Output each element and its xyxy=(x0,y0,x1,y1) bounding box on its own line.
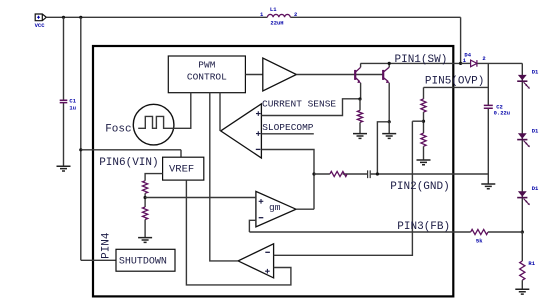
svg-text:PIN3(FB): PIN3(FB) xyxy=(397,221,450,233)
wire OVP tap to comparator xyxy=(412,120,423,122)
ground Q2 emitter xyxy=(382,134,396,139)
wire VIN/shutdown branch xyxy=(80,17,82,260)
wire LED to R1 xyxy=(521,232,523,261)
LED D1 middle xyxy=(517,133,530,147)
node SW-D4 junction xyxy=(459,62,462,65)
wire CURRENT SENSE input xyxy=(261,99,360,116)
OVP divider: wire from pin xyxy=(423,87,425,99)
wire OVP divider middle xyxy=(423,112,425,133)
svg-text:PIN1(SW): PIN1(SW) xyxy=(395,54,448,66)
node OVP tap xyxy=(422,120,425,123)
svg-text:gm: gm xyxy=(269,202,281,213)
wire sense resistor to ground xyxy=(359,122,361,133)
wire divider node xyxy=(144,193,146,207)
node Q2 emitter junction xyxy=(388,120,391,123)
wire compensation run xyxy=(314,173,453,175)
minus sign gm xyxy=(259,217,264,219)
wire FB external xyxy=(453,231,522,233)
driver amp xyxy=(263,58,297,91)
resistor OVP lower xyxy=(421,133,426,146)
LED D1 top xyxy=(517,75,530,89)
wire OVP lower to ground xyxy=(423,146,425,160)
wire shutdown entry xyxy=(81,259,116,261)
ground C2 xyxy=(481,184,495,189)
svg-text:VCC: VCC xyxy=(35,22,46,29)
amplifier gm xyxy=(256,191,296,227)
svg-text:PIN6(VIN): PIN6(VIN) xyxy=(99,157,158,169)
svg-text:2: 2 xyxy=(294,11,297,18)
svg-text:SHUTDOWN: SHUTDOWN xyxy=(119,257,167,268)
inductor L1 xyxy=(267,14,290,17)
svg-text:D1: D1 xyxy=(532,127,539,134)
PWM CONTROL block U-PWM xyxy=(168,56,245,93)
resistor current sense xyxy=(357,110,362,122)
resistor divider lower xyxy=(143,207,148,220)
svg-text:PIN2(GND): PIN2(GND) xyxy=(390,181,449,193)
VREF block xyxy=(163,157,204,180)
svg-text:0.22u: 0.22u xyxy=(494,109,511,116)
wire C2 drop xyxy=(487,63,489,184)
wire PIN6 VIN entry xyxy=(81,150,181,157)
wire PIN2 GND external xyxy=(453,173,488,175)
ground current sense xyxy=(353,134,367,139)
resistor R1 xyxy=(520,261,525,280)
wire Fosc to PWM xyxy=(172,93,191,129)
wire slope comparator output to PWM xyxy=(219,93,221,131)
wire VREF left to divider xyxy=(145,174,163,181)
node rail-C1 junction xyxy=(62,16,65,19)
node Q1 emitter / current sense xyxy=(358,97,361,100)
transistor Q2 xyxy=(383,67,390,83)
svg-text:5k: 5k xyxy=(476,238,483,245)
svg-text:R1: R1 xyxy=(528,260,535,267)
wire PIN3 FB internal xyxy=(249,231,453,233)
minus sign input 3 xyxy=(256,148,261,150)
plus sign ovp xyxy=(265,269,270,274)
wire SW drop from rail xyxy=(460,17,462,63)
wire PIN1(SW) xyxy=(361,62,461,64)
svg-text:CONTROL: CONTROL xyxy=(187,72,227,83)
diode D4 xyxy=(471,60,477,67)
node compensation to Q2 branch xyxy=(376,172,379,175)
svg-text:SLOPECOMP: SLOPECOMP xyxy=(262,122,314,133)
plus sign input 2 xyxy=(256,131,261,136)
comparator U-slope (PWM comparator) xyxy=(221,104,262,158)
wire D4 cathode to LED chain xyxy=(478,63,523,232)
resistor divider upper xyxy=(143,181,148,194)
svg-text:D1: D1 xyxy=(532,185,539,192)
wire C1 branch xyxy=(63,17,65,166)
svg-text:PIN4: PIN4 xyxy=(100,232,112,259)
wire Q1 collector xyxy=(360,63,362,67)
wire SLOPECOMP stub xyxy=(261,133,313,135)
ground OVP divider xyxy=(417,160,431,165)
wire comparator minus input from gm xyxy=(261,150,314,210)
LED D1 bottom xyxy=(517,191,530,205)
wire Q2 emitter to ground xyxy=(388,122,390,134)
node FB-LED junction xyxy=(521,230,524,233)
comparator U-ovp xyxy=(238,244,274,278)
wire PWM to driver xyxy=(245,74,262,76)
svg-text:VREF: VREF xyxy=(169,164,194,176)
wire D4 anode xyxy=(461,62,471,64)
node VIN branch junction xyxy=(79,148,82,151)
VCC port pin mark xyxy=(37,16,40,19)
wire driver output to bases xyxy=(296,74,383,76)
wire Q2 emitter down xyxy=(388,83,390,122)
capacitor C2 xyxy=(484,105,493,108)
node collector junction xyxy=(388,62,391,65)
node divider tap xyxy=(144,196,147,199)
wire gm output xyxy=(296,208,314,210)
wire Q2 collector xyxy=(388,63,390,67)
IC block outline xyxy=(93,46,453,296)
wire ovp plus input to VREF xyxy=(186,180,291,285)
VCC port xyxy=(35,14,46,21)
transistor Q1 xyxy=(355,67,361,83)
capacitor C1 xyxy=(60,100,68,102)
resistor OVP upper xyxy=(421,99,426,112)
wire to sense resistor xyxy=(359,99,361,110)
wire ovp comparator output to PWM xyxy=(210,93,238,261)
resistor compensation xyxy=(330,171,347,176)
minus sign ovp xyxy=(265,251,270,253)
wire gm minus to FB xyxy=(249,220,256,232)
svg-text:2: 2 xyxy=(482,55,485,62)
svg-text:Fosc: Fosc xyxy=(105,124,131,136)
wire divider to ground xyxy=(144,220,146,238)
svg-text:L1: L1 xyxy=(270,6,277,13)
svg-text:PWM: PWM xyxy=(198,60,215,71)
svg-text:D1: D1 xyxy=(532,69,539,76)
SHUTDOWN block xyxy=(116,249,175,271)
wire R1 to ground xyxy=(521,280,523,289)
node compensation tap xyxy=(312,172,315,175)
resistor 5k xyxy=(471,229,488,234)
wire divider tap to gm plus xyxy=(145,197,256,199)
wire ovp minus input xyxy=(274,121,413,255)
capacitor compensation xyxy=(368,170,371,178)
wire Q1 emitter down xyxy=(360,83,362,99)
svg-text:1u: 1u xyxy=(69,104,76,111)
node rail-VIN junction xyxy=(79,16,82,19)
plus sign input 1 xyxy=(256,111,261,116)
wire VCC top rail xyxy=(46,16,460,18)
wire PIN5 OVP xyxy=(424,86,489,88)
oscillator Fosc xyxy=(105,104,174,145)
svg-text:22uH: 22uH xyxy=(270,19,283,26)
ground C1 xyxy=(57,166,71,171)
svg-text:CURRENT SENSE: CURRENT SENSE xyxy=(262,99,336,110)
ground divider xyxy=(138,238,152,243)
plus sign gm xyxy=(259,199,264,204)
wire Q2 emitter branch to compensation xyxy=(377,122,389,174)
svg-text:C1: C1 xyxy=(69,97,76,104)
svg-text:PIN5(OVP): PIN5(OVP) xyxy=(425,75,484,87)
ground R1 xyxy=(515,289,529,294)
